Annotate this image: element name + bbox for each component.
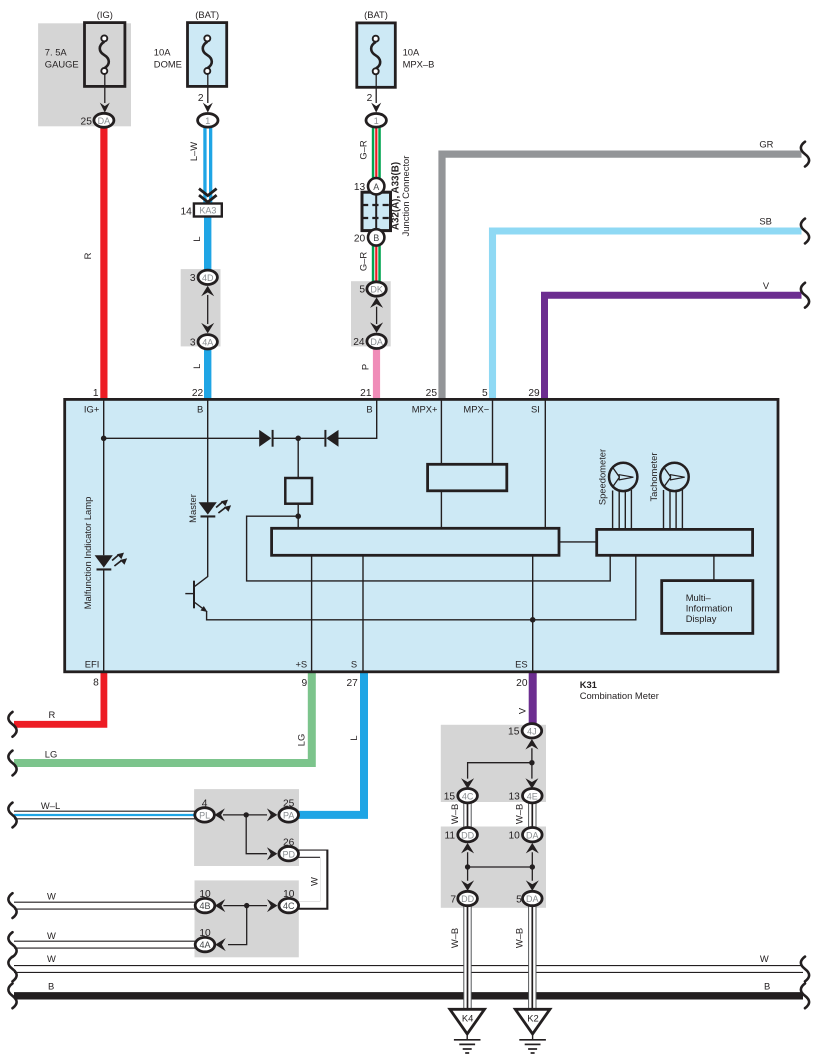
svg-text:B: B [366,403,372,414]
svg-text:(BAT): (BAT) [195,9,219,20]
wire between 4D and 4A arrows [207,295,209,324]
connector 24 DA [353,334,386,348]
tachometer wires [664,490,683,529]
svg-text:13: 13 [508,792,520,803]
wire IG+ internal lower to EFI [103,570,105,671]
label LG vertical [295,734,306,747]
transistor Q1 [185,581,207,612]
wire SB to pin 5 MPX- [493,231,802,400]
splice arrow above KA3 [199,189,217,203]
connector 10 4A [195,928,215,952]
break symbol V right [801,283,809,308]
connector 5 DA [516,891,542,905]
pin number 9 [302,678,308,689]
node IG+ branch [101,436,107,442]
LED Master [199,500,232,518]
node PL/PA/PD [244,812,249,817]
label V [763,280,770,291]
connector 15 4J [508,724,542,738]
node 4J split [529,760,534,765]
wire bus to pin 9 +S [311,555,313,671]
svg-text:25: 25 [283,799,295,810]
wire IG+ to diode row [104,437,260,439]
svg-text:SB: SB [759,216,772,227]
label (BAT) dome [195,9,219,20]
svg-text:W–B: W–B [513,804,524,824]
label (IG) [97,9,113,20]
label LG bottom [45,748,58,759]
resistor block R1 [285,478,312,504]
wire node to PD [246,815,267,854]
svg-text:10: 10 [199,889,211,900]
connector 11 DD [445,828,478,842]
arrow into DA [100,103,110,113]
svg-text:8: 8 [93,678,99,689]
svg-text:B: B [48,980,54,991]
wire W bus across page [13,965,804,973]
label W 4A [47,930,56,941]
svg-text:4: 4 [202,799,208,810]
wire SI to bus [544,400,546,528]
svg-text:1: 1 [205,116,210,126]
wire bus to pin 27 S [362,555,364,671]
relay block shade 4D/4A [181,269,221,346]
svg-text:Speedometer: Speedometer [597,449,608,505]
label W bus right [760,953,769,964]
diode D2 [324,430,338,447]
svg-text:7: 7 [450,894,456,905]
svg-text:PA: PA [283,811,294,821]
svg-text:A: A [373,182,379,192]
svg-text:10: 10 [283,889,295,900]
wire bus to gauge driver [559,541,597,543]
wire G-R from junction B to DK [372,245,381,283]
svg-text:11: 11 [445,831,456,842]
break symbol R left [8,712,16,737]
fuse GAUGE 7.5A [85,23,125,87]
svg-text:DA: DA [526,830,539,840]
node 4B/4C/4A [244,903,249,908]
svg-text:B: B [197,403,203,414]
svg-text:2: 2 [198,93,204,104]
pin label S [351,658,357,669]
label SB [759,216,772,227]
label W vertical PD-4C [309,877,320,886]
svg-text:K31: K31 [580,679,597,690]
wire fuse GAUGE to DA [104,74,106,103]
svg-text:4B: 4B [199,901,210,911]
arrow down into 4A [201,323,214,334]
arrow down into DA 5 [526,880,539,891]
label W-B vertical right lower [513,928,524,948]
svg-text:L: L [191,236,202,241]
svg-text:5: 5 [359,285,365,296]
wire gauge driver to display [713,555,715,580]
wire W-L from left to PL [13,811,196,820]
svg-text:L–W: L–W [188,142,199,161]
label W-B vertical left upper [449,804,460,824]
label Master [187,494,198,523]
wire L from KA3 to 4D [204,217,211,272]
svg-text:DA: DA [98,116,111,126]
svg-text:DD: DD [461,894,474,904]
svg-text:4E: 4E [527,791,538,801]
svg-text:9: 9 [302,678,308,689]
connector B [354,229,385,245]
wire P from DA to pin 21 B [373,348,380,400]
label wire G-R vertical lower [357,252,368,272]
gauge driver block [597,529,753,555]
wire B ground bus across page [14,992,803,999]
pin label MPX- [463,403,489,414]
arrow into connector 1 mpx [371,103,381,113]
pin label B 22 [197,403,203,414]
svg-text:(BAT): (BAT) [364,9,388,20]
svg-text:13: 13 [354,182,366,193]
svg-text:K4: K4 [462,1013,473,1024]
svg-text:W–B: W–B [449,804,460,824]
svg-text:W–B: W–B [449,928,460,948]
connector 10 4C [279,889,299,913]
svg-text:10A: 10A [154,47,171,58]
pin label ES [515,658,528,669]
wire emitter to ES row [207,556,636,620]
label R bottom [49,709,56,720]
label Speedometer [597,449,608,505]
label GR [759,139,773,150]
svg-text:27: 27 [346,678,358,689]
connector 3 4D [190,270,217,284]
svg-text:25: 25 [426,388,438,399]
svg-text:3: 3 [190,273,196,284]
svg-text:DA: DA [526,894,539,904]
svg-text:DOME: DOME [154,58,182,69]
fuse block shade (IG gauge) [38,23,131,126]
svg-text:DA: DA [370,337,383,347]
junction connector A32/A33 box [362,192,391,230]
svg-text:MPX+: MPX+ [412,403,438,414]
pin label B 21 [366,403,372,414]
label (BAT) mpx [364,9,388,20]
svg-text:4A: 4A [199,940,210,950]
wire W-B from 4C to DD [463,802,471,828]
wire W from left to 4B [13,902,196,910]
wire node to 4A [228,906,247,945]
label W-L [41,800,60,811]
svg-text:R: R [82,252,93,259]
label wire L-W vertical [188,142,199,161]
label A32(A), A33(B) [390,162,401,230]
ground K4 [450,1009,485,1053]
svg-text:25: 25 [81,116,93,127]
pin number 27 [346,678,358,689]
wire LG from pin 9 +S to left [14,671,312,763]
svg-text:GAUGE: GAUGE [45,58,79,69]
connector A [354,178,385,194]
svg-text:Master: Master [187,494,198,523]
break symbol B bus left [8,983,16,1008]
svg-text:15: 15 [508,727,520,738]
pin label SI [531,403,540,414]
svg-text:Malfunction Indicator Lamp: Malfunction Indicator Lamp [82,497,93,610]
wire W from left to 4A [13,941,196,949]
wire G-R from fuse 1 to junction A [372,127,381,179]
svg-text:P: P [360,364,371,370]
break symbol W bus right [801,957,809,982]
svg-text:10A: 10A [403,47,420,58]
junction KA3 [180,204,221,218]
label Tachometer [648,453,659,502]
svg-text:21: 21 [360,388,372,399]
svg-text:SI: SI [531,403,540,414]
wire PL to PA [223,814,267,816]
node ES junction [530,617,536,623]
svg-text:24: 24 [353,337,365,348]
svg-text:2: 2 [367,93,373,104]
svg-text:KA3: KA3 [199,206,216,216]
wire V from pin 20 ES to 4J [529,671,537,724]
connector 25 DA [81,113,114,127]
arrow left into 4B [215,899,226,912]
svg-text:PL: PL [199,811,210,821]
connector 1 (mpx) [366,93,386,127]
wire Master LED to transistor collector [195,518,208,587]
svg-text:Tachometer: Tachometer [648,453,659,502]
wire W-B from 4E to DA [528,802,536,828]
svg-text:V: V [517,707,528,714]
pin label MPX+ [412,403,438,414]
svg-text:Display: Display [686,613,717,624]
wire bus to pin 20 ES [532,555,534,671]
svg-text:10: 10 [199,928,211,939]
relay block shade 4J/4C/4E [441,725,546,802]
pin number 29 [528,388,540,399]
svg-text:5: 5 [516,894,522,905]
wire V to pin 29 SI [545,295,802,400]
svg-text:W–B: W–B [513,928,524,948]
ground K2 [515,1009,550,1053]
label 10A DOME [154,47,182,70]
svg-text:(IG): (IG) [97,9,113,20]
arrow up below 4D [201,286,214,297]
svg-text:MPX–B: MPX–B [403,58,435,69]
mpx transceiver block [428,464,507,491]
connector 15 4C [444,789,478,803]
wire diode junction [273,437,324,439]
svg-text:4D: 4D [202,273,214,283]
arrow up below DK [370,297,383,308]
label Junction Connector [400,156,411,237]
svg-text:29: 29 [528,388,540,399]
label wire L vertical lower [191,364,202,369]
multi-information display block [662,581,753,634]
svg-text:1: 1 [93,388,99,399]
arrow up into 4J [525,739,538,750]
node DD link [465,864,470,869]
wire diode to pin 21 B [339,400,377,438]
LED Malfunction Indicator Lamp [95,553,128,571]
pin label EFI [85,658,100,669]
svg-text:L: L [348,735,359,740]
svg-text:Combination Meter: Combination Meter [580,690,659,701]
fuse MPX-B 10A [357,23,396,87]
wire diode node to resistor [297,438,299,478]
arrow into connector 1 [203,103,213,113]
wire MPX+ to mpx block [440,400,442,464]
node below resistor [295,513,301,519]
wire between DK and DA arrows [376,307,378,324]
svg-text:LG: LG [295,734,306,747]
arrow right into PA [267,808,278,821]
break symbol SB right [801,219,809,244]
relay block shade PL/PA/PD [194,789,299,866]
wire B 22 to Master LED [207,400,209,502]
arrow up into DD [461,843,474,854]
pin number 21 [360,388,372,399]
svg-text:DK: DK [370,285,383,295]
svg-text:+S: +S [295,658,307,669]
pin label IG+ [84,403,100,414]
svg-text:DD: DD [461,830,474,840]
svg-text:Junction Connector: Junction Connector [400,156,411,237]
label 10A MPX-B [403,47,435,70]
arrow down into 4C [461,778,474,789]
arrow right into PD [267,847,278,860]
wire IG+ internal upper [103,400,105,555]
diode D1 [259,430,273,447]
wire W-B from DD 7 to ground K4 [463,905,471,1010]
label B bus left [48,980,54,991]
svg-text:10: 10 [508,831,520,842]
svg-text:K2: K2 [527,1013,538,1024]
relay block shade 4B/4C/4A [195,880,299,957]
arrow left into 4A [215,938,226,951]
break symbol W-L left [8,803,16,828]
svg-text:G–R: G–R [357,140,368,160]
relay block shade DK/DA [351,281,391,346]
label L vertical bottom [348,735,359,740]
break symbol B bus right [801,983,809,1008]
svg-text:14: 14 [180,206,192,217]
break symbol GR right [801,142,809,167]
connector 4 PL [195,799,215,823]
svg-text:GR: GR [759,139,773,150]
svg-text:IG+: IG+ [84,403,100,414]
wire R from fuse DA to pin 1 IG+ [100,127,107,400]
svg-text:W: W [47,930,56,941]
svg-text:20: 20 [516,678,528,689]
svg-text:4C: 4C [283,901,295,911]
wire resistor to bus [297,504,299,529]
node diode junction [295,436,301,442]
label W-B vertical right upper [513,804,524,824]
svg-text:Multi–: Multi– [686,592,712,603]
break symbol W bus left [8,957,16,982]
node DA link [530,864,535,869]
svg-text:1: 1 [374,116,379,126]
label W bus left [47,953,56,964]
svg-text:PD: PD [282,849,295,859]
connector 10 4B [195,889,215,913]
svg-text:W: W [760,953,769,964]
speedometer gauge [609,463,637,491]
wire 4B to 4C [223,905,267,907]
pin number 25 [426,388,438,399]
svg-text:20: 20 [354,234,366,245]
break symbol LG left [8,751,16,776]
svg-text:G–R: G–R [357,252,368,272]
label B bus right [764,980,770,991]
svg-text:S: S [351,658,357,669]
wire mpx block to bus [440,491,442,529]
svg-text:3: 3 [190,338,196,349]
central bus block [272,528,559,555]
svg-text:MPX−: MPX− [463,403,489,414]
svg-text:4C: 4C [462,791,474,801]
label K31 Combination Meter [580,679,659,701]
connector 13 4E [508,789,542,803]
pin number 1 [93,388,99,399]
svg-text:V: V [763,280,770,291]
wire W-B from DA 5 to ground K2 [528,905,536,1010]
svg-text:B: B [764,980,770,991]
label W-B vertical left lower [449,928,460,948]
arrow down into DD 7 [461,880,474,891]
connector 3 4A [190,335,217,349]
arrow left into PL [214,808,225,821]
connector 1 (dome) [198,93,218,127]
svg-text:15: 15 [444,792,456,803]
pin number 5 [482,388,488,399]
wire feedback to gauge driver [247,516,611,581]
break symbol W 4A left [8,932,16,957]
arrow down into 4E [525,778,538,789]
connector 10 DA [508,828,542,842]
break symbol W 4B left [8,893,16,918]
connector 26 PD [279,837,299,861]
label wire G-R vertical upper [357,140,368,160]
svg-text:LG: LG [45,748,58,759]
svg-text:Information: Information [686,602,733,613]
connector 7 DD [450,891,477,905]
pin number 22 [192,388,204,399]
arrow down into DA [370,322,383,333]
speedometer wires [613,490,632,529]
svg-text:W: W [47,890,56,901]
svg-text:EFI: EFI [85,658,100,669]
connector 25 PA [279,799,299,823]
wire fuse DOME pin 2 [207,74,209,103]
label wire P vertical [360,364,371,370]
label Malfunction Indicator Lamp [82,497,93,610]
wire MPX- to mpx block [492,400,494,464]
wire fuse MPX-B pin 2 [375,74,377,103]
svg-text:L: L [191,364,202,369]
combination meter box K31 [65,399,778,671]
svg-text:22: 22 [192,388,204,399]
label W 4B [47,890,56,901]
svg-text:7. 5A: 7. 5A [45,47,68,58]
wire W from PD to 4C [297,854,324,906]
label wire L vertical upper [191,236,202,241]
fuse DOME 10A [188,23,227,87]
connector 5 DK [359,282,386,296]
tachometer gauge [660,463,688,491]
svg-text:5: 5 [482,388,488,399]
pin number 20 [516,678,528,689]
svg-text:4A: 4A [202,337,213,347]
arrow up into DA [526,843,539,854]
